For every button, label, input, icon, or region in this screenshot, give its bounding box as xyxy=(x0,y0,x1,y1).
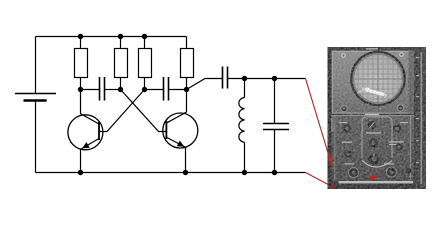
top edge label xyxy=(366,48,378,50)
node dots xyxy=(78,34,277,175)
knob upper-right xyxy=(393,124,401,132)
capacitor C3 output coupling xyxy=(187,67,245,90)
wire probe red bottom xyxy=(306,173,333,187)
node tank top L1 xyxy=(242,76,247,81)
oscilloscope photo xyxy=(328,47,427,189)
panel divider line xyxy=(332,115,416,116)
wire top rail xyxy=(36,36,187,38)
probe terminal red top xyxy=(329,153,332,167)
node top rail R2 xyxy=(118,34,123,39)
wire bottom rail xyxy=(36,172,306,174)
node top rail R3 xyxy=(142,34,147,39)
crt screen xyxy=(353,53,404,104)
capacitor C1 xyxy=(81,77,121,101)
knob mid-left xyxy=(344,150,351,157)
wire cross-coupling C1 to Q2 base xyxy=(121,90,167,132)
node R4/C2/Q2 collector xyxy=(184,87,189,92)
wire cross-coupling C2 to Q1 base xyxy=(99,90,145,132)
resistor R1 xyxy=(75,37,88,90)
dial arc xyxy=(362,161,392,168)
left zone divider xyxy=(334,116,336,180)
knob mid-center xyxy=(369,138,378,147)
graticule xyxy=(353,54,402,103)
node bottom Q1 emitter xyxy=(78,170,83,175)
panel labels xyxy=(339,122,408,165)
knob bottom-far-right xyxy=(406,168,411,173)
upper crt panel xyxy=(332,51,416,115)
screw top-left xyxy=(341,53,346,58)
capacitor C4 tank xyxy=(263,79,289,173)
node bottom L1 xyxy=(242,170,247,175)
bolt below screen right xyxy=(397,105,403,111)
right zone divider xyxy=(410,116,412,180)
node R3/C2/Q1 base xyxy=(142,87,147,92)
upper panel right shadow xyxy=(409,51,416,115)
wire probe red top xyxy=(306,79,331,160)
knob big center xyxy=(369,154,380,165)
center zone outline xyxy=(362,117,392,158)
right side strip xyxy=(414,47,426,189)
case xyxy=(328,47,427,189)
probe terminal red bottom xyxy=(330,184,334,188)
transistor Q2 xyxy=(163,90,198,173)
node R2/C1/Q2 base xyxy=(118,87,123,92)
transistor Q1 xyxy=(68,90,103,173)
bolt below screen left xyxy=(341,105,347,111)
inductor L1 xyxy=(239,79,245,173)
lower panel xyxy=(332,115,416,181)
trace blob xyxy=(357,88,387,96)
node tank top C4 xyxy=(272,76,277,81)
grain overlay xyxy=(328,47,427,189)
screw top-right xyxy=(399,52,404,57)
node bottom Q2 emitter xyxy=(183,170,188,175)
node top rail R1 xyxy=(78,34,83,39)
wire tank top xyxy=(245,78,306,80)
knob mid-right xyxy=(395,143,402,150)
knob upper-left xyxy=(343,124,351,132)
resistor R4 xyxy=(181,37,194,90)
resistor R2 xyxy=(115,37,128,90)
bottom strip handle xyxy=(339,181,414,183)
left edge strip xyxy=(328,47,332,189)
red marker bottom center xyxy=(370,175,375,180)
knob bottom-right xyxy=(387,167,397,177)
brand label xyxy=(365,114,379,116)
node bottom C4 xyxy=(272,170,277,175)
capacitor C2 xyxy=(145,77,187,101)
resistor R3 xyxy=(139,37,152,90)
battery B1 xyxy=(15,37,56,173)
crt bezel xyxy=(350,51,406,107)
node R1/C1/Q1 collector xyxy=(78,87,83,92)
knob bottom-left xyxy=(349,168,359,178)
knob upper-center xyxy=(368,121,376,129)
